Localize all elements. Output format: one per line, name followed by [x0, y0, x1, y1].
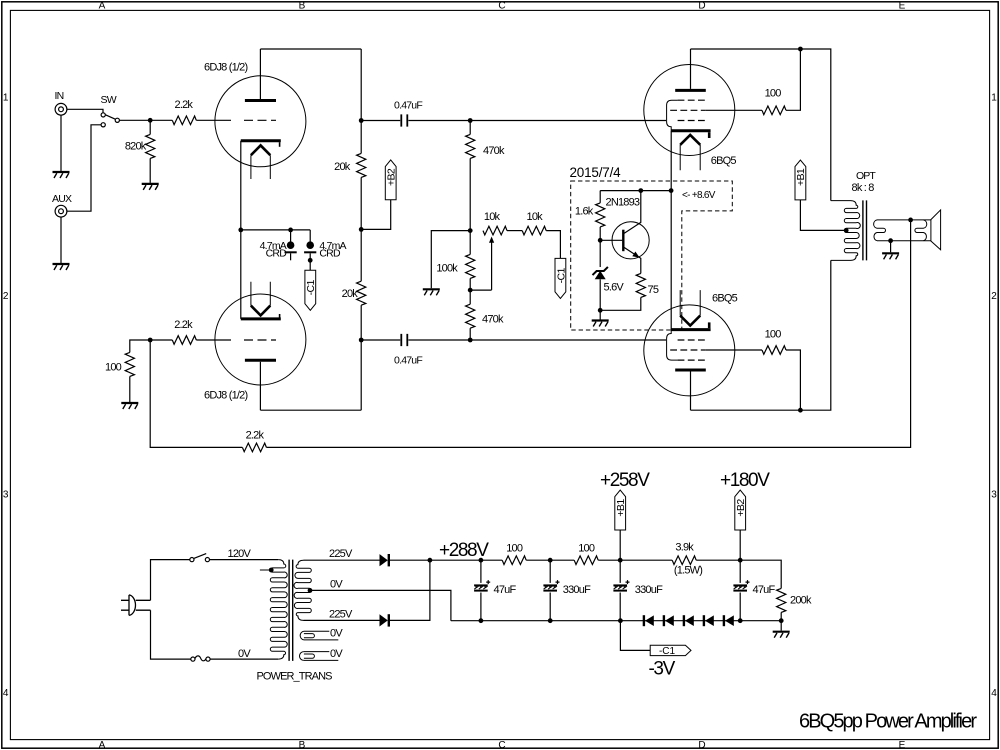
svg-text:3: 3	[3, 489, 9, 500]
V4 grid1	[678, 339, 706, 341]
node OPT center tap	[844, 228, 849, 233]
svg-text:2: 2	[991, 291, 997, 302]
tube V1 6DJ8 (1/2) upper envelope	[215, 76, 306, 167]
svg-text:0V: 0V	[238, 648, 251, 660]
wire pot to 10k	[507, 230, 522, 232]
wire V4 plate to OPT	[691, 260, 831, 410]
svg-text:D: D	[698, 740, 705, 750]
diode bias D5	[684, 615, 694, 626]
svg-text:+B2: +B2	[386, 168, 398, 186]
transistor Q1 2N1893	[600, 191, 649, 274]
capacitor 330uF second	[613, 560, 629, 621]
node B2	[738, 558, 743, 563]
wire pot left ground branch	[423, 231, 470, 296]
node rail B2 tap	[359, 227, 364, 232]
wire cathode rail V3-V4	[670, 131, 672, 330]
svg-text:6BQ5: 6BQ5	[712, 293, 738, 305]
svg-text:1: 1	[3, 92, 9, 103]
node input junction	[148, 118, 153, 123]
wire rail top	[360, 49, 362, 153]
diode rectifier D2	[380, 614, 389, 626]
resistor 100 filter 2	[574, 556, 598, 565]
CRD 4.7mA left	[285, 230, 297, 260]
wire ground rail	[451, 620, 781, 622]
svg-text:2: 2	[3, 291, 9, 302]
V4 cathode	[671, 322, 710, 329]
svg-text:470k: 470k	[483, 145, 505, 157]
node HV center tap	[308, 588, 313, 593]
jack IN	[55, 103, 67, 115]
label 4.7mA CRD left	[260, 240, 288, 259]
svg-text:(1.5W): (1.5W)	[674, 565, 702, 577]
AC plug P1	[121, 595, 151, 616]
wire plug to switches	[151, 560, 191, 660]
wire rail middle	[360, 177, 362, 281]
svg-text:-C1: -C1	[305, 280, 317, 296]
wire B2 node	[696, 560, 781, 588]
svg-text:3.9k: 3.9k	[675, 542, 694, 554]
svg-text:470k: 470k	[482, 314, 504, 326]
node rail coupling upper	[359, 118, 364, 123]
wire HV top to diode	[304, 559, 380, 561]
transformer T1 HV secondary	[294, 560, 311, 620]
svg-text:+288V: +288V	[439, 540, 489, 561]
svg-text:10k: 10k	[527, 211, 544, 223]
svg-text:225V: 225V	[329, 608, 353, 620]
V1 heater	[251, 145, 270, 179]
resistor 470k lower	[466, 290, 475, 340]
node secondary ground	[888, 238, 893, 243]
V3 plate	[675, 49, 706, 90]
wire V4 screen to 100	[706, 349, 762, 351]
svg-text:2N1893: 2N1893	[606, 197, 640, 209]
wire HV bottom to diode	[304, 619, 380, 621]
svg-text:3: 3	[991, 489, 997, 500]
svg-text:100: 100	[765, 88, 782, 100]
svg-text:100: 100	[105, 362, 122, 374]
svg-text:47uF: 47uF	[494, 584, 517, 596]
resistor 820k	[146, 120, 155, 183]
node rail cap1	[479, 618, 484, 623]
svg-text:75: 75	[648, 284, 659, 296]
diode bias D3	[644, 615, 654, 626]
resistor 470k upper	[466, 121, 475, 231]
resistor 100 filter 1	[502, 556, 526, 565]
svg-text:A: A	[99, 740, 106, 750]
net flag -C1 cathode bias	[305, 270, 317, 310]
node screen B+ junction	[798, 47, 803, 52]
wire 2.2k to V1 grid	[196, 119, 231, 121]
switch mains lower	[191, 656, 210, 661]
svg-text:6BQ5: 6BQ5	[711, 155, 737, 167]
wire switches to primary	[210, 560, 279, 660]
net flag +B2 upper	[385, 160, 397, 200]
svg-text:E: E	[899, 1, 906, 12]
switch mains upper	[190, 554, 210, 562]
net flag +B1 OPT tap	[795, 160, 807, 200]
svg-text:C: C	[498, 1, 505, 12]
svg-text:+180V: +180V	[720, 470, 770, 491]
resistor 75	[600, 273, 645, 310]
ground bias	[592, 310, 609, 326]
net flag +B1 supply	[615, 490, 627, 560]
svg-text:1: 1	[991, 92, 997, 103]
svg-text:0.47uF: 0.47uF	[394, 100, 422, 112]
V3 heater	[680, 135, 700, 170]
speaker SP	[931, 210, 941, 250]
wire to V3 grid	[470, 120, 666, 122]
V1 cathode	[241, 141, 281, 147]
svg-text:2.2k: 2.2k	[246, 429, 265, 441]
wire cathode rail V1-V2	[240, 141, 242, 319]
diode bias D7	[724, 615, 734, 626]
node NFB junction	[148, 338, 153, 343]
svg-text:8k : 8: 8k : 8	[852, 182, 875, 194]
node CRD bottom junction	[308, 258, 313, 263]
bias box dashed outline	[571, 181, 733, 330]
resistor 100k	[466, 231, 475, 291]
node rectifier junction	[428, 558, 433, 563]
node rail cap3	[738, 618, 743, 623]
node CRD1 top	[288, 228, 293, 233]
wire V3 screen to 100	[706, 109, 762, 111]
wire bias top	[600, 190, 671, 192]
CRD 4.7mA right	[304, 230, 316, 271]
V2 cathode	[241, 314, 281, 319]
resistor 100 screen upper	[762, 106, 786, 115]
svg-text:0.47uF: 0.47uF	[394, 355, 422, 367]
resistor 2.2k input upper	[172, 116, 196, 125]
node grid line lower	[468, 338, 473, 343]
svg-text:+B1: +B1	[795, 168, 807, 186]
wire rail bottom	[360, 305, 362, 410]
diode bias D4	[664, 615, 674, 626]
wire NFB vertical	[150, 340, 242, 447]
svg-text:D: D	[698, 1, 705, 12]
potentiometer 10k	[483, 226, 507, 290]
wire filter	[526, 559, 574, 561]
tube V2 6DJ8 (1/2) lower envelope	[215, 294, 306, 385]
svg-text:CRD: CRD	[319, 247, 341, 259]
resistor 10k	[522, 226, 546, 235]
node base junction	[598, 238, 603, 243]
wire B1 to OPT center tap	[800, 200, 845, 231]
transformer T1 primary	[270, 560, 287, 660]
transformer T1 core	[289, 560, 293, 661]
wire screen riser lower	[786, 350, 800, 410]
wire 10k to C1 flag	[546, 231, 560, 259]
svg-text:1.6k: 1.6k	[575, 206, 594, 218]
svg-text:AUX: AUX	[52, 193, 72, 205]
svg-text:A: A	[99, 1, 106, 12]
wire B2 tap	[361, 200, 391, 230]
wire primary 100V tap stub	[260, 568, 274, 573]
svg-text:6BQ5pp Power Amplifier: 6BQ5pp Power Amplifier	[799, 710, 977, 732]
resistor 2.2k input lower	[172, 336, 196, 345]
V1 grid	[244, 119, 276, 121]
node screen junction lower	[798, 408, 803, 413]
V3 grid1	[678, 120, 706, 122]
ground supply	[773, 621, 790, 638]
capacitor 330uF first	[543, 560, 559, 621]
svg-text:E: E	[899, 740, 906, 750]
svg-text:B: B	[299, 1, 306, 12]
wire switch common to grid	[119, 119, 172, 121]
svg-text:6DJ8 (1/2): 6DJ8 (1/2)	[204, 62, 247, 74]
wire V2 plate run	[260, 409, 361, 411]
ground AUX	[53, 217, 70, 270]
ground IN	[53, 115, 70, 178]
svg-text:C: C	[498, 740, 505, 750]
V4 grid2	[670, 349, 706, 351]
wire HV center tap 0V	[311, 590, 451, 620]
svg-text:+B1: +B1	[615, 499, 627, 517]
svg-text:200k: 200k	[790, 595, 812, 607]
V3 cathode	[671, 131, 710, 138]
svg-text:5.6V: 5.6V	[604, 281, 625, 293]
V4 heater	[680, 290, 700, 325]
wire CRD row	[241, 229, 310, 231]
transformer OPT core	[863, 200, 867, 260]
resistor 100 grid return	[125, 340, 150, 402]
svg-text:+B2: +B2	[735, 499, 747, 517]
wire wiper	[470, 289, 491, 291]
svg-text:<- +8.6V: <- +8.6V	[682, 190, 716, 201]
V2 heater	[251, 282, 270, 316]
wire 2.2k to V2 grid	[196, 339, 231, 341]
resistor 200k	[777, 588, 786, 620]
svg-text:2015/7/4: 2015/7/4	[570, 165, 622, 180]
node rail ground	[779, 618, 784, 623]
node pot junction	[468, 228, 473, 233]
net flag -C1 source	[650, 645, 691, 657]
V4 plate	[675, 370, 706, 410]
resistor 3.9k	[672, 556, 696, 565]
svg-text:100k: 100k	[436, 263, 458, 275]
diode bias D6	[704, 615, 714, 626]
transformer OPT secondary	[874, 220, 931, 241]
node secondary output	[908, 218, 913, 223]
V4 grid3	[667, 330, 706, 361]
switch SW	[101, 113, 119, 127]
svg-text:330uF: 330uF	[563, 584, 591, 596]
node rail coupling lower	[359, 338, 364, 343]
svg-text:20k: 20k	[334, 161, 351, 173]
svg-text:4: 4	[3, 688, 9, 699]
svg-text:6DJ8 (1/2): 6DJ8 (1/2)	[204, 389, 247, 401]
capacitor 0.47uF lower	[361, 334, 470, 346]
svg-text:100: 100	[506, 543, 523, 555]
capacitor 47uF second	[733, 560, 749, 621]
label 4.7mA CRD right	[319, 240, 346, 259]
net flag -C1 bias feed	[555, 258, 567, 298]
svg-text:-3V: -3V	[649, 659, 676, 680]
wire AUX jack to switch	[67, 125, 101, 211]
svg-text:B: B	[299, 740, 306, 750]
transformer OPT primary	[831, 201, 860, 261]
svg-text:-C1: -C1	[659, 646, 676, 657]
wire V1 plate to rail	[260, 48, 361, 50]
resistor 2.2k NFB	[242, 443, 266, 452]
wire D2 riser	[390, 560, 430, 620]
node cathode junction	[238, 228, 243, 233]
jack AUX	[55, 205, 67, 217]
wire to V4 grid	[470, 339, 666, 341]
node rail bias	[618, 618, 623, 623]
svg-text:0V: 0V	[330, 628, 343, 640]
resistor 20k upper	[357, 153, 366, 177]
svg-text:-C1: -C1	[555, 268, 567, 284]
svg-text:820k: 820k	[125, 141, 147, 153]
svg-text:20k: 20k	[342, 288, 359, 300]
V2 plate	[245, 360, 276, 410]
node zener bottom	[598, 308, 603, 313]
tube V3 6BQ5 upper envelope	[644, 65, 735, 156]
svg-text:4: 4	[991, 688, 997, 699]
wire screen riser upper	[786, 49, 800, 110]
svg-text:POWER_TRANS: POWER_TRANS	[257, 670, 333, 682]
resistor 100 screen lower	[762, 346, 786, 355]
wire filter to B1 node	[598, 559, 672, 561]
wire D1 to B+	[390, 559, 503, 561]
wire C1 stub	[620, 621, 650, 651]
V1 plate	[245, 49, 276, 101]
ground OPT secondary	[882, 241, 899, 260]
svg-text:2.2k: 2.2k	[175, 99, 194, 111]
net flag +B2 supply	[735, 490, 747, 560]
node rail cap2	[548, 618, 553, 623]
resistor 1.6k	[596, 191, 605, 241]
node cathode rail junction	[669, 188, 674, 193]
resistor 20k lower	[357, 281, 366, 305]
svg-text:2.2k: 2.2k	[174, 319, 193, 331]
node wiper junction	[468, 288, 473, 293]
svg-text:0V: 0V	[330, 648, 343, 660]
wire V3 plate to OPT	[691, 49, 831, 201]
wire NFB node to 2.2k	[150, 339, 172, 341]
node filter cap 1	[479, 558, 484, 563]
capacitor 47uF first	[474, 560, 490, 621]
svg-text:100: 100	[578, 543, 595, 555]
svg-text:120V: 120V	[228, 548, 252, 560]
svg-text:IN: IN	[55, 90, 64, 102]
node filter cap 2	[548, 558, 553, 563]
svg-text:+258V: +258V	[600, 470, 650, 491]
svg-text:OPT: OPT	[856, 170, 876, 182]
svg-text:10k: 10k	[484, 211, 501, 223]
transformer T1 heater winding 1	[300, 631, 338, 640]
svg-text:100: 100	[765, 329, 782, 341]
svg-text:SW: SW	[101, 94, 117, 106]
capacitor 0.47uF upper	[361, 114, 470, 126]
svg-text:0V: 0V	[330, 579, 343, 591]
wire NFB to output	[266, 220, 910, 448]
diode zener 5.6V	[593, 240, 608, 310]
wire IN jack to switch	[67, 109, 103, 112]
node collector junction	[638, 188, 643, 193]
ground 100	[121, 403, 138, 409]
diode rectifier D1	[380, 554, 389, 566]
node B1	[618, 558, 623, 563]
tube V4 6BQ5 lower envelope	[644, 305, 735, 396]
svg-text:330uF: 330uF	[635, 584, 663, 596]
V3 grid3	[667, 100, 706, 131]
V3 grid2	[670, 109, 706, 111]
ground 820k	[142, 184, 159, 190]
svg-text:225V: 225V	[329, 548, 353, 560]
svg-text:47uF: 47uF	[753, 584, 776, 596]
transformer T1 heater winding 2	[299, 652, 338, 661]
node grid line upper	[468, 118, 473, 123]
svg-text:CRD: CRD	[266, 247, 288, 259]
V2 grid	[244, 339, 276, 341]
